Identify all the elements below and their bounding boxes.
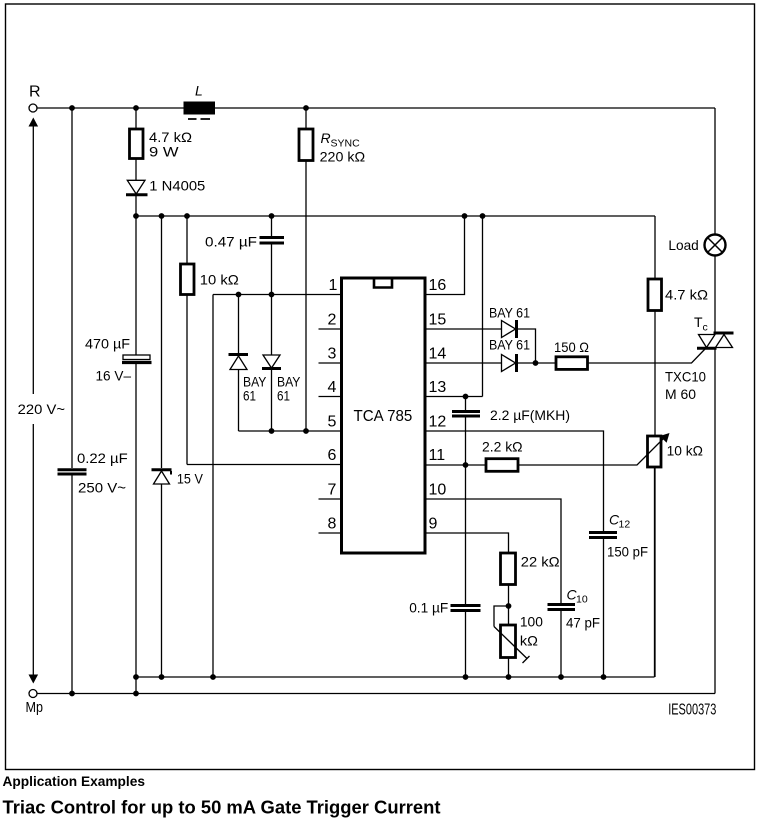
svg-text:IES00373: IES00373 xyxy=(668,702,716,719)
diode BAY 61 (pin15) xyxy=(489,305,536,364)
wire pin 16 to bus xyxy=(425,216,465,295)
wire pin 9 line down to 22k xyxy=(425,533,509,553)
potentiometer 10 kOhm xyxy=(648,433,704,677)
pin 7 stub xyxy=(319,498,342,500)
svg-text:9: 9 xyxy=(429,516,438,533)
svg-text:1 N4005: 1 N4005 xyxy=(149,178,205,194)
svg-text:R: R xyxy=(321,130,331,146)
wire pin 10 line down to C10 xyxy=(425,499,561,603)
svg-text:R: R xyxy=(29,84,41,101)
svg-text:2: 2 xyxy=(328,312,337,329)
junction pin11 line / C 0.1uF branch xyxy=(463,462,469,468)
resistor 10 kOhm (left) xyxy=(181,216,239,465)
wire pin 11 line xyxy=(425,464,486,466)
svg-text:250 V~: 250 V~ xyxy=(78,480,126,496)
wire pin 12 line to C12 xyxy=(425,431,604,531)
svg-text:0.22 µF: 0.22 µF xyxy=(77,450,128,466)
svg-text:11: 11 xyxy=(429,447,446,464)
zener diode 15 V xyxy=(152,216,204,677)
svg-text:2.2 µF(MKH): 2.2 µF(MKH) xyxy=(490,407,570,423)
svg-text:9 W: 9 W xyxy=(149,144,179,160)
wire bottom bus y=677 xyxy=(136,676,655,678)
svg-text:Application Examples: Application Examples xyxy=(3,774,146,790)
junction bus / 10k branch xyxy=(184,213,190,219)
svg-text:470 µF: 470 µF xyxy=(85,336,130,352)
svg-text:10 kΩ: 10 kΩ xyxy=(200,272,239,288)
svg-text:47 pF: 47 pF xyxy=(566,615,600,631)
junction bus / C 0.47uF branch xyxy=(269,213,275,219)
svg-text:0.1 µF: 0.1 µF xyxy=(409,600,448,616)
junction pin1 line / BAY61 right xyxy=(269,292,275,298)
junction top rail / R 4.7k branch xyxy=(133,105,139,111)
junction bus / pin13 branch xyxy=(480,213,486,219)
junction pin13 line / C 2.2uF branch xyxy=(463,394,469,400)
inductor L xyxy=(184,83,216,120)
svg-text:12: 12 xyxy=(429,414,447,431)
svg-text:15 V: 15 V xyxy=(177,471,204,487)
capacitor 470 uF 16 V (electrolytic) xyxy=(85,216,152,694)
svg-text:13: 13 xyxy=(429,379,447,396)
resistor 4.7 kOhm (snubber) xyxy=(648,279,708,436)
svg-text:16: 16 xyxy=(429,277,447,294)
wire pin 5 line xyxy=(239,430,342,432)
diode D1 1N4005 xyxy=(126,178,206,217)
junction pin1 line / BAY61 left xyxy=(236,292,242,298)
svg-text:kΩ: kΩ xyxy=(520,633,538,649)
pin 4 stub xyxy=(319,396,342,398)
diode BAY 61 (pin14) xyxy=(489,337,556,373)
svg-text:BAY 61: BAY 61 xyxy=(489,337,530,353)
terminal R xyxy=(29,84,41,113)
junction gnd bus / pin1 branch xyxy=(210,674,216,680)
wire gate to triac xyxy=(588,349,706,364)
svg-text:Load: Load xyxy=(668,237,698,253)
junction 22k / 100k / wiper xyxy=(506,603,512,609)
svg-text:12: 12 xyxy=(619,519,631,531)
svg-text:0.47 µF: 0.47 µF xyxy=(205,234,257,250)
capacitor 0.47 uF xyxy=(205,216,284,295)
svg-text:61: 61 xyxy=(277,388,290,404)
resistor 4.7 kOhm 9 W xyxy=(130,108,193,181)
resistor RSYNC 220 kOhm xyxy=(299,108,365,165)
terminal Mp xyxy=(26,690,44,717)
triac TXC10 M60 xyxy=(665,314,734,402)
svg-text:10: 10 xyxy=(429,482,447,499)
junction Mp rail / 0.22uF branch xyxy=(69,691,75,697)
svg-text:TCA 785: TCA 785 xyxy=(354,408,413,425)
pin 2 stub xyxy=(319,328,342,330)
svg-text:L: L xyxy=(195,83,203,99)
junction bus / diode 1N4005 xyxy=(133,213,139,219)
junction gnd bus / C12 branch xyxy=(601,674,607,680)
capacitor C12 150 pF xyxy=(589,512,648,678)
lamp Load xyxy=(668,235,725,256)
wire pin 14 line xyxy=(425,362,502,364)
svg-text:220 V~: 220 V~ xyxy=(18,401,65,417)
wire: bus corner down to 4.7k (right) xyxy=(654,216,656,279)
wire RSYNC down to pin5 line xyxy=(305,161,307,432)
svg-text:1: 1 xyxy=(329,277,338,294)
junction bus / zener branch xyxy=(159,213,165,219)
wire: supply bus y=216 xyxy=(136,215,655,217)
wire bus down to pin 13 (x=482.5) xyxy=(482,216,484,397)
svg-text:8: 8 xyxy=(328,516,337,533)
svg-text:4.7 kΩ: 4.7 kΩ xyxy=(665,287,708,303)
junction gnd bus / zener branch xyxy=(159,674,165,680)
junction gnd bus / C10 branch xyxy=(558,674,564,680)
diode BAY 61 (left, cathode up) xyxy=(229,295,267,432)
svg-text:BAY 61: BAY 61 xyxy=(489,305,530,321)
pin 3 stub xyxy=(319,362,342,364)
diode BAY 61 (left pair, cathode down) xyxy=(262,295,301,432)
svg-text:3: 3 xyxy=(328,346,337,363)
svg-text:22 kΩ: 22 kΩ xyxy=(521,554,560,570)
wire pin 13 line xyxy=(425,396,483,398)
svg-text:61: 61 xyxy=(243,388,256,404)
junction top rail / RSYNC branch xyxy=(303,105,309,111)
svg-text:10: 10 xyxy=(576,594,588,606)
wire triac down to Mp rail xyxy=(714,348,716,693)
wire wiper line to pot 10k xyxy=(518,439,664,466)
capacitor 0.22 uF 250 V xyxy=(58,108,128,694)
wire pin1 to bottom bus (x=213) xyxy=(212,295,214,678)
capacitor 0.1 uF xyxy=(409,465,480,677)
svg-text:15: 15 xyxy=(429,312,447,329)
resistor 22 kOhm xyxy=(501,553,560,625)
IC U1 TCA 785 xyxy=(342,278,426,553)
svg-text:M 60: M 60 xyxy=(665,386,696,402)
junction gnd bus / 100k branch xyxy=(506,674,512,680)
junction gnd bus / 470uF branch xyxy=(133,674,139,680)
voltage annotation arrow 220 V~ xyxy=(18,118,65,684)
wire pin 6 line xyxy=(187,464,342,466)
wire pin 15 line xyxy=(425,328,502,330)
svg-text:14: 14 xyxy=(429,346,447,363)
wire: top rail R to right xyxy=(37,107,184,109)
svg-text:2.2 kΩ: 2.2 kΩ xyxy=(482,439,523,455)
resistor 2.2 kOhm xyxy=(482,439,523,472)
resistor 150 Ohm xyxy=(554,339,589,369)
svg-text:220 kΩ: 220 kΩ xyxy=(320,149,366,165)
junction gnd bus / C 0.1uF branch xyxy=(463,674,469,680)
capacitor C10 47 pF xyxy=(548,587,601,678)
junction pin5 line / BAY61 right xyxy=(269,428,275,434)
svg-text:5: 5 xyxy=(328,414,337,431)
junction top rail / C 0.22uF branch xyxy=(69,105,75,111)
svg-text:150 Ω: 150 Ω xyxy=(554,339,589,355)
svg-text:4: 4 xyxy=(328,379,337,396)
svg-text:TXC10: TXC10 xyxy=(665,369,706,385)
svg-text:100: 100 xyxy=(520,614,543,630)
svg-text:c: c xyxy=(703,322,708,334)
wire load to triac xyxy=(714,256,716,334)
wire: right rail down to load xyxy=(714,108,716,235)
trimmer 100 kOhm xyxy=(494,606,543,677)
svg-text:16 V–: 16 V– xyxy=(96,368,132,384)
wire Mp rail y=693.5 xyxy=(37,693,715,695)
junction pin5 line / RSYNC branch xyxy=(303,428,309,434)
wire pin 1 line xyxy=(213,294,342,296)
capacitor 2.2 uF (MKH) xyxy=(452,397,570,466)
junction Mp rail / 470uF branch xyxy=(133,691,139,697)
svg-text:10 kΩ: 10 kΩ xyxy=(667,443,703,459)
svg-text:Mp: Mp xyxy=(26,700,44,716)
svg-text:Triac Control for up to 50 mA: Triac Control for up to 50 mA Gate Trigg… xyxy=(3,798,441,818)
svg-text:150 pF: 150 pF xyxy=(607,544,648,560)
pin 8 stub xyxy=(319,532,342,534)
svg-text:6: 6 xyxy=(328,447,337,464)
svg-text:7: 7 xyxy=(328,482,337,499)
junction bus / pin16 branch xyxy=(462,213,468,219)
